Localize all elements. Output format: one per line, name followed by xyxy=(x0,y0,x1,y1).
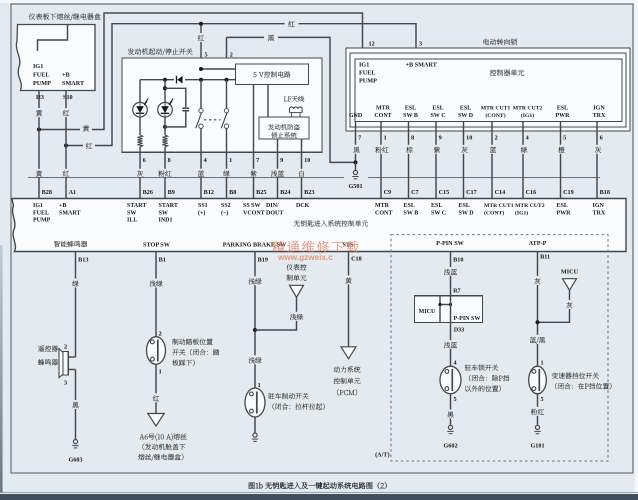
svg-text:ESL: ESL xyxy=(431,203,442,209)
svg-text:PUMP: PUMP xyxy=(359,78,377,85)
svg-text:C17: C17 xyxy=(466,189,477,196)
svg-text:C9: C9 xyxy=(384,189,392,196)
svg-text:MTR CUT1: MTR CUT1 xyxy=(484,203,514,209)
svg-text:(CONT): (CONT) xyxy=(484,209,504,216)
svg-text:DIN/: DIN/ xyxy=(266,203,279,209)
svg-text:SW D: SW D xyxy=(459,210,475,216)
svg-text:(+): (+) xyxy=(198,209,205,216)
svg-text:R7: R7 xyxy=(453,287,461,294)
svg-text:B24: B24 xyxy=(280,189,290,196)
svg-text:MTR CUT1: MTR CUT1 xyxy=(481,106,511,112)
svg-text:C18: C18 xyxy=(351,256,362,263)
svg-text:TRX: TRX xyxy=(593,210,606,216)
svg-text:MTR: MTR xyxy=(375,203,390,209)
svg-text:5: 5 xyxy=(563,134,566,141)
svg-text:SW: SW xyxy=(159,210,168,216)
svg-text:B23: B23 xyxy=(304,189,314,196)
svg-text:MICU: MICU xyxy=(561,269,579,276)
svg-text:G501: G501 xyxy=(348,183,362,190)
svg-text:3: 3 xyxy=(419,41,422,48)
svg-text:PWR: PWR xyxy=(556,113,571,119)
svg-text:IG1: IG1 xyxy=(33,203,43,209)
svg-text:5: 5 xyxy=(541,396,544,403)
svg-text:ILL: ILL xyxy=(127,218,137,224)
svg-text:SS1: SS1 xyxy=(198,203,208,209)
svg-text:SW B: SW B xyxy=(403,113,418,119)
svg-text:6: 6 xyxy=(600,134,603,141)
svg-text:IGN: IGN xyxy=(593,203,605,209)
svg-text:5: 5 xyxy=(454,396,457,403)
svg-text:3: 3 xyxy=(64,380,67,387)
svg-text:P-PIN SW: P-PIN SW xyxy=(436,240,464,247)
svg-text:(IG1): (IG1) xyxy=(521,112,534,119)
svg-text:+B: +B xyxy=(62,72,70,79)
svg-text:SW: SW xyxy=(127,210,136,216)
svg-text:B26: B26 xyxy=(143,189,153,196)
svg-text:10: 10 xyxy=(304,157,310,164)
svg-text:START: START xyxy=(159,203,178,209)
svg-text:S10: S10 xyxy=(63,94,73,101)
svg-text:8: 8 xyxy=(168,157,171,164)
svg-text:9: 9 xyxy=(439,134,442,141)
svg-text:CONT: CONT xyxy=(374,113,391,119)
svg-text:START: START xyxy=(127,203,146,209)
svg-text:6: 6 xyxy=(143,157,146,164)
svg-text:(IG1): (IG1) xyxy=(515,209,528,216)
svg-text:ESL: ESL xyxy=(557,106,568,112)
svg-text:FUEL: FUEL xyxy=(359,70,376,77)
svg-text:SW B: SW B xyxy=(404,210,419,216)
svg-text:B11: B11 xyxy=(540,254,550,261)
svg-text:FUEL: FUEL xyxy=(33,72,50,79)
svg-text:FUEL: FUEL xyxy=(33,210,49,216)
svg-text:MTR: MTR xyxy=(376,106,391,112)
svg-text:5: 5 xyxy=(205,52,208,59)
svg-text:10: 10 xyxy=(466,134,472,141)
svg-text:ESL: ESL xyxy=(404,203,415,209)
svg-text:9: 9 xyxy=(280,157,283,164)
svg-text:1: 1 xyxy=(159,369,162,376)
svg-text:C14: C14 xyxy=(495,189,506,196)
svg-text:G101: G101 xyxy=(530,442,544,449)
svg-text:PUMP: PUMP xyxy=(33,80,51,87)
svg-text:SMART: SMART xyxy=(59,210,80,216)
svg-text:B1: B1 xyxy=(159,257,166,264)
svg-text:G602: G602 xyxy=(443,442,457,449)
svg-text:2: 2 xyxy=(159,330,162,337)
svg-text:B13: B13 xyxy=(78,257,88,264)
svg-text:CONT: CONT xyxy=(375,210,392,216)
svg-text:ESL: ESL xyxy=(432,106,443,112)
svg-text:A1: A1 xyxy=(69,189,77,196)
svg-text:B12: B12 xyxy=(204,189,214,196)
svg-text:12: 12 xyxy=(369,41,375,48)
svg-text:G603: G603 xyxy=(68,457,82,464)
svg-text:SW C: SW C xyxy=(431,210,446,216)
svg-text:7: 7 xyxy=(256,157,259,164)
svg-text:DOUT: DOUT xyxy=(266,210,283,216)
svg-text:(CONT): (CONT) xyxy=(485,112,505,119)
svg-text:B28: B28 xyxy=(42,189,52,196)
svg-text:STOP SW: STOP SW xyxy=(143,242,171,249)
svg-text:SW C: SW C xyxy=(430,113,445,119)
svg-text:4: 4 xyxy=(204,157,207,164)
svg-text:MTR CUT2: MTR CUT2 xyxy=(513,106,543,112)
svg-text:TRX: TRX xyxy=(593,113,606,119)
svg-text:PARKING BRAKE SW: PARKING BRAKE SW xyxy=(223,242,287,249)
svg-text:2: 2 xyxy=(495,134,498,141)
svg-text:B25: B25 xyxy=(256,189,266,196)
svg-text:SW D: SW D xyxy=(458,113,474,119)
svg-text:ESL: ESL xyxy=(557,203,568,209)
svg-text:C7: C7 xyxy=(411,189,419,196)
svg-text:SMART: SMART xyxy=(62,80,85,87)
svg-text:IG1: IG1 xyxy=(359,62,369,69)
svg-text:B18: B18 xyxy=(600,189,610,196)
svg-text:DCK: DCK xyxy=(296,203,310,209)
svg-text:P-PIN SW: P-PIN SW xyxy=(454,316,481,322)
svg-text:SS2: SS2 xyxy=(221,203,231,209)
svg-text:H3: H3 xyxy=(36,94,44,101)
svg-text:1: 1 xyxy=(541,360,544,367)
svg-text:4: 4 xyxy=(454,360,457,367)
svg-text:2: 2 xyxy=(230,52,233,59)
svg-text:ESL: ESL xyxy=(459,203,470,209)
svg-text:SS SW: SS SW xyxy=(243,203,261,209)
svg-text:7: 7 xyxy=(358,134,361,141)
svg-text:1: 1 xyxy=(229,157,232,164)
svg-text:www.gzweix.c: www.gzweix.c xyxy=(277,253,333,262)
svg-text:C15: C15 xyxy=(439,189,450,196)
svg-text:PUMP: PUMP xyxy=(33,218,51,224)
svg-text:4: 4 xyxy=(526,134,529,141)
svg-text:ESL: ESL xyxy=(405,106,416,112)
svg-text:+B SMART: +B SMART xyxy=(406,62,438,69)
svg-text:(A/T): (A/T) xyxy=(375,452,389,459)
svg-text:VCONT: VCONT xyxy=(243,210,265,216)
svg-text:B19: B19 xyxy=(258,257,268,264)
svg-text:C19: C19 xyxy=(563,189,574,196)
svg-text:MICU: MICU xyxy=(419,309,436,315)
svg-text:ESL: ESL xyxy=(460,106,471,112)
svg-text:MTR CUT2: MTR CUT2 xyxy=(515,203,545,209)
svg-text:PWR: PWR xyxy=(557,210,572,216)
svg-text:GND: GND xyxy=(349,113,363,119)
svg-text:(−): (−) xyxy=(221,209,228,216)
svg-text:IGN: IGN xyxy=(593,106,605,112)
svg-text:1: 1 xyxy=(384,134,387,141)
svg-text:IND1: IND1 xyxy=(159,218,173,224)
svg-text:D33: D33 xyxy=(454,327,465,334)
svg-text:C16: C16 xyxy=(526,189,537,196)
svg-text:B9: B9 xyxy=(168,189,175,196)
svg-text:+B: +B xyxy=(59,203,66,209)
svg-text:2: 2 xyxy=(64,344,67,351)
svg-text:IG1: IG1 xyxy=(33,63,43,70)
svg-text:B8: B8 xyxy=(229,189,236,196)
svg-text:B10: B10 xyxy=(453,257,463,264)
svg-text:8: 8 xyxy=(411,134,414,141)
svg-text:ATP-P: ATP-P xyxy=(529,240,547,247)
